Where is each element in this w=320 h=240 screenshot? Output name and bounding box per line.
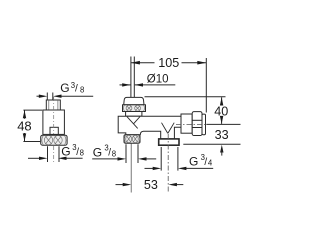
dimension Ø10 <box>120 83 176 86</box>
dimension 48 <box>23 110 42 141</box>
centerline: inlet/bottom outlet axis <box>130 144 132 193</box>
node: right outlet cylinder <box>181 114 192 133</box>
dimension 33 bottom arrow <box>220 145 223 156</box>
svg-text:48: 48 <box>17 119 31 134</box>
svg-text:8: 8 <box>112 149 116 158</box>
label G3/4 <box>189 153 213 169</box>
svg-text:105: 105 <box>158 56 179 70</box>
dimension 105 <box>131 58 206 113</box>
centerline: down outlet axis <box>167 134 169 193</box>
svg-text:33: 33 <box>215 128 229 142</box>
svg-text:G: G <box>61 145 70 159</box>
svg-text:Ø10: Ø10 <box>147 73 169 85</box>
chamfer marks inside body <box>127 117 138 129</box>
extension lines: bottom-left outlet thread <box>125 144 127 163</box>
node: hex nut (cross-hatch) <box>41 135 67 145</box>
svg-text:G: G <box>93 145 102 159</box>
node: thread section <box>46 100 60 110</box>
svg-text:40: 40 <box>214 104 228 118</box>
node: inlet compression nut (cross-hatch hex) <box>123 105 146 112</box>
dimension G3/8 leader (left fitting top) <box>37 95 94 98</box>
extension line: collar bottom (33 dim) <box>183 143 240 145</box>
node: inlet bell <box>124 97 144 104</box>
label G3/8 left fitting bottom <box>61 143 84 159</box>
node: bottom-left outlet hex (cross-hatch) <box>124 135 140 143</box>
node: right outlet hex nut <box>192 112 202 136</box>
dimension G3/4 leader <box>145 167 214 170</box>
node: valve body <box>118 116 181 139</box>
node: fitting body <box>43 110 65 134</box>
node: down outlet collar <box>159 139 179 145</box>
centerline left fitting <box>53 97 55 134</box>
node: right outlet end cap <box>202 114 206 135</box>
extension line: top of nut (40 dim) <box>145 96 226 98</box>
svg-text:G: G <box>60 81 69 95</box>
svg-text:8: 8 <box>80 149 84 158</box>
wire: inlet pipe <box>130 57 132 98</box>
svg-text:G: G <box>189 155 198 169</box>
node: inlet collar <box>126 112 142 117</box>
svg-text:53: 53 <box>144 178 158 192</box>
extension lines: left fitting bottom thread <box>47 146 49 162</box>
label G3/8 body outlet <box>93 144 116 160</box>
extension lines: down outlet thread <box>160 147 162 171</box>
dimension G3/8 leader (body bottom-left outlet) <box>92 157 156 160</box>
node: slot notch <box>50 127 58 134</box>
svg-text:/: / <box>75 84 78 95</box>
svg-text:4: 4 <box>208 159 213 168</box>
extension lines: left fitting top thread <box>46 93 48 100</box>
dimension 40 <box>220 97 223 124</box>
dimension 53 <box>116 183 184 186</box>
label G3/8 top-left <box>60 81 84 95</box>
dimension G3/8 leader (left fitting bottom) <box>28 157 83 160</box>
centerline: right outlet axis <box>176 123 206 125</box>
svg-text:8: 8 <box>80 86 84 95</box>
